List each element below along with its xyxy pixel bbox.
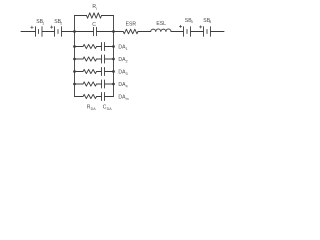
svg-text:m: m (126, 97, 129, 101)
resistor Rl (87, 13, 102, 18)
svg-text:4: 4 (209, 20, 211, 24)
wire row 2 middle (97, 58, 102, 60)
label C (92, 22, 96, 28)
battery SB3 (179, 25, 190, 36)
DA row 4 junction dot right (112, 83, 115, 86)
wire row 2 left (75, 58, 84, 60)
resistor RDA row 4 (83, 82, 97, 86)
capacitor CDA row 1 (102, 43, 105, 51)
battery SB4 (200, 26, 211, 37)
wire ESL to SB3 (171, 31, 184, 33)
DA row 2 junction dot right (112, 58, 115, 61)
wire top branch left (75, 15, 87, 17)
label ESR (126, 22, 137, 28)
DA row 3 junction dot right (112, 70, 115, 73)
resistor RDA row 3 (83, 69, 97, 73)
resistor ESR (123, 29, 138, 34)
wire top branch right (102, 15, 114, 17)
wire row 4 left (75, 83, 84, 85)
wire row 3 left (75, 71, 84, 73)
resistor RDA row 1 (83, 44, 97, 48)
capacitor CDA row n (102, 93, 105, 101)
svg-text:DA: DA (107, 107, 113, 111)
label DA3 (118, 69, 127, 76)
wire row n right (105, 96, 114, 98)
wire row 1 middle (97, 46, 102, 48)
capacitor C (94, 27, 97, 35)
DA row 1 junction dot left (73, 45, 76, 48)
left rail wire (74, 16, 76, 97)
label CDA (103, 105, 112, 111)
svg-text:1: 1 (126, 47, 128, 51)
DA row 2 junction dot left (73, 58, 76, 61)
label SB2 (54, 19, 62, 25)
wire row 4 middle (97, 83, 102, 85)
svg-text:l: l (96, 7, 97, 11)
wire row 3 right (105, 71, 114, 73)
wire node A to capacitor C (75, 31, 94, 33)
label SB1 (36, 19, 44, 25)
svg-text:C: C (92, 22, 96, 28)
wire row 1 right (105, 46, 114, 48)
label RDA (87, 105, 96, 111)
resistor RDA row 2 (83, 57, 97, 61)
wire SB3 to SB4 (191, 31, 204, 33)
svg-text:3: 3 (191, 20, 193, 24)
label ESL (156, 21, 166, 27)
DA row 4 junction dot left (73, 83, 76, 86)
svg-text:DA: DA (91, 107, 97, 111)
label DAn (118, 94, 128, 101)
node B junction dot right (112, 30, 115, 33)
capacitor CDA row 4 (102, 80, 105, 88)
svg-text:3: 3 (126, 72, 128, 76)
capacitor CDA row 3 (102, 68, 105, 76)
label SB4 (203, 18, 211, 24)
wire node B to ESR (114, 31, 124, 33)
wire ESR to ESL (138, 31, 151, 33)
DA row 3 junction dot left (73, 70, 76, 73)
wire row n middle (97, 96, 102, 98)
wire row n left (75, 96, 84, 98)
inductor ESL (151, 29, 171, 32)
svg-text:ESL: ESL (156, 21, 166, 27)
wire row 3 middle (97, 71, 102, 73)
wire SB2 to node A (62, 31, 75, 33)
svg-text:4: 4 (126, 84, 128, 88)
wire capacitor C to node B (97, 31, 114, 33)
svg-text:2: 2 (126, 59, 128, 63)
label DA1 (118, 44, 127, 51)
battery SB2 (51, 26, 62, 36)
resistor RDA row n (83, 94, 97, 98)
right rail wire (113, 16, 115, 97)
wire row 2 right (105, 58, 114, 60)
wire row 4 right (105, 83, 114, 85)
label DA2 (118, 57, 127, 64)
DA row 1 junction dot right (112, 45, 115, 48)
wire row 1 left (75, 46, 84, 48)
wire left terminal to SB1 (21, 31, 36, 33)
node A junction dot left (73, 30, 76, 33)
wire SB4 to right terminal (211, 31, 225, 33)
svg-text:2: 2 (60, 22, 62, 26)
label Rl (92, 4, 97, 11)
label SB3 (185, 18, 193, 24)
svg-text:1: 1 (42, 22, 44, 26)
svg-text:ESR: ESR (126, 22, 137, 28)
label DA4 (118, 82, 127, 89)
battery SB1 (31, 26, 42, 36)
wire SB1 to SB2 (42, 31, 55, 33)
capacitor CDA row 2 (102, 55, 105, 63)
